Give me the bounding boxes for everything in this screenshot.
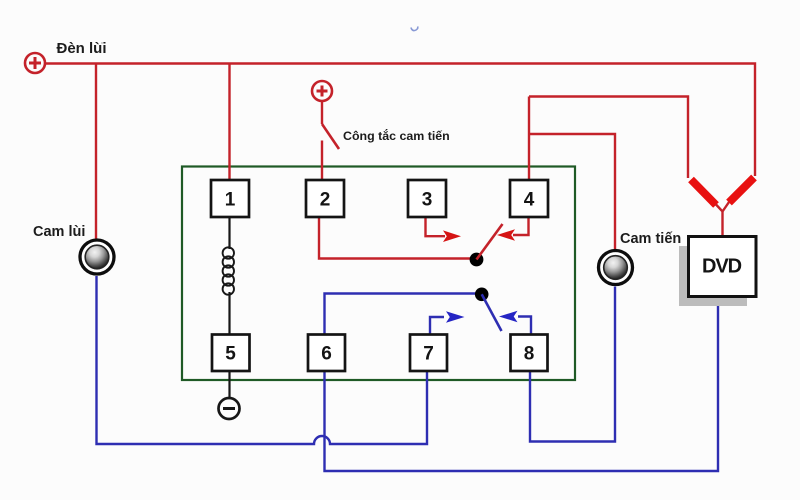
svg-text:3: 3 <box>422 190 433 211</box>
svg-text:7: 7 <box>423 344 434 365</box>
svg-text:8: 8 <box>524 344 535 365</box>
relay box outline <box>182 167 575 381</box>
pin 7 contact arrow <box>430 311 465 335</box>
stray blue artifact mark <box>411 27 418 31</box>
camera CAM1 (Cam lùi) <box>80 240 114 274</box>
svg-text:Cam lùi: Cam lùi <box>33 224 85 240</box>
pin 1 <box>211 180 249 217</box>
wire: main +12V line <box>46 64 755 177</box>
diode D1 <box>691 180 716 206</box>
DVD unit U1 shadow <box>679 246 747 306</box>
ground terminal (minus) <box>219 398 240 419</box>
wire: pin 4 to diode D1 <box>529 97 688 179</box>
pin 4 contact arrow <box>497 216 529 241</box>
wire: branch to Cam lùi <box>95 64 97 240</box>
wire: diode junction to DVD <box>716 202 729 237</box>
wire: pin 8 to Cam tiến video <box>530 287 615 442</box>
wire: pin 4 to Cam tiến power <box>529 134 615 250</box>
svg-text:Công tắc cam tiến: Công tắc cam tiến <box>343 128 450 143</box>
pin 5 <box>212 335 250 372</box>
relay K2 movable contact lever <box>482 294 502 331</box>
diode D2 <box>729 178 754 203</box>
svg-text:5: 5 <box>225 344 236 365</box>
pin 3 contact arrow <box>426 216 462 242</box>
svg-text:Đèn lùi: Đèn lùi <box>57 40 107 57</box>
switch SW1 blade (Công tắc cam tiến) <box>322 124 339 149</box>
wire: pin 4 riser <box>528 97 530 182</box>
svg-text:4: 4 <box>524 190 535 211</box>
wire: coil to pin 5 <box>228 292 230 335</box>
pin 8 <box>511 335 548 372</box>
pin 8 contact arrow <box>499 311 531 335</box>
DVD unit U1 <box>689 237 757 297</box>
pin 4 <box>510 180 548 217</box>
svg-text:6: 6 <box>321 344 332 365</box>
wire: switch top lead <box>321 101 323 124</box>
svg-text:1: 1 <box>225 190 236 211</box>
pin 3 <box>408 180 446 217</box>
pin 6 <box>308 335 345 372</box>
node K2 common junction <box>475 288 489 302</box>
wire: pin 6 to relay common K2 <box>325 294 478 336</box>
terminal + (switch supply) <box>312 81 332 101</box>
wire: pin 1 to coil <box>228 217 230 249</box>
camera CAM2 (Cam tiến) <box>599 251 633 285</box>
wire: pin 6 to DVD video in <box>325 298 719 472</box>
relay coil L1 <box>223 247 234 294</box>
wire: switch bottom lead to pin 2 <box>321 141 323 182</box>
terminal + (Đèn lùi supply) <box>25 53 45 73</box>
node K1 common junction <box>470 253 484 267</box>
svg-text:Cam tiến: Cam tiến <box>620 231 681 247</box>
wire: pin 2 to relay common K1 <box>319 216 472 259</box>
svg-text:DVD: DVD <box>702 256 742 278</box>
svg-text:2: 2 <box>320 190 331 211</box>
relay K1 movable contact lever <box>477 224 503 260</box>
pin 7 <box>410 335 447 372</box>
wire: Cam lùi video to pin 7 (hop over pin6 wire) <box>97 276 428 444</box>
wire: branch to pin 1 <box>228 64 230 182</box>
wire: pin 5 to ground <box>228 371 230 398</box>
pin 2 <box>306 180 344 217</box>
